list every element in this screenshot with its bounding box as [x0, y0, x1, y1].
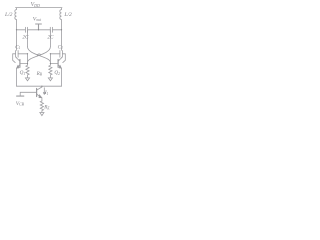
wire Q1 emitter down [16, 68, 18, 86]
svg-text:RB: RB [36, 71, 43, 77]
wire emitter bus [17, 85, 62, 87]
junction dot tail collector [41, 86, 42, 87]
wire Q1 base lead [20, 62, 28, 64]
junction dot left C1 lead [27, 53, 28, 54]
svg-text:VDD: VDD [31, 2, 40, 8]
wire Q3 base lead [20, 92, 36, 96]
wire 2C row center [28, 29, 51, 31]
inductor L/2 left [15, 8, 17, 50]
wire Q2 base lead [50, 62, 58, 64]
capacitor C1 left [16, 51, 19, 58]
junction dot left base lead [27, 63, 28, 64]
node Vb terminal center [36, 24, 42, 30]
wire C1 right outer lead [62, 54, 65, 63]
node VCB bias bar [17, 95, 24, 97]
svg-text:Vout: Vout [33, 16, 42, 22]
wire VDD top rail [16, 7, 63, 9]
resistor RE [40, 101, 43, 112]
wire crossover hop [37, 54, 40, 56]
svg-text:2C: 2C [47, 35, 54, 41]
wire Q3 emitter down [41, 98, 43, 101]
wire cross diagonal B with hop [28, 47, 51, 63]
junction dot right C1 lead [50, 53, 51, 54]
wire 2C row right segment [53, 29, 62, 31]
junction dot center terminal [38, 29, 39, 30]
svg-text:RE: RE [43, 105, 50, 111]
junction dot left 2C [16, 29, 17, 30]
resistor RB left [26, 65, 29, 78]
svg-text:C1: C1 [58, 44, 63, 50]
transistor Q2 [57, 60, 59, 68]
wire 2C row left segment [17, 29, 26, 31]
transistor Q1 [19, 60, 21, 68]
wire right X column upper [49, 30, 51, 47]
wire left X column upper [27, 30, 29, 47]
transistor Q3 tail [36, 89, 38, 97]
wire cross diagonal A [28, 47, 51, 63]
wire Q2 emitter down [61, 68, 63, 86]
svg-text:L/2: L/2 [63, 12, 72, 18]
wire C1 left outer lead [13, 54, 16, 63]
ground bottom [40, 113, 45, 116]
junction dot right base lead [50, 63, 51, 64]
resistor RB right [49, 65, 52, 78]
svg-text:VCB: VCB [16, 101, 25, 107]
junction dot right 2C [61, 29, 62, 30]
wire left X column lower [27, 54, 29, 65]
ground right RB [48, 78, 53, 81]
wire right X column lower [49, 54, 51, 65]
capacitor C1 right [60, 51, 63, 58]
ground left RB [25, 78, 30, 81]
wire C1 left inner lead [18, 53, 27, 55]
current arrow I1 [43, 88, 45, 95]
svg-text:L/2: L/2 [4, 12, 13, 18]
svg-text:Q1: Q1 [20, 70, 26, 76]
capacitor 2C left [25, 27, 27, 32]
svg-text:2C: 2C [22, 35, 29, 41]
capacitor 2C right [50, 27, 52, 32]
wire C1 right inner lead [50, 53, 60, 55]
wire tail collector [41, 85, 43, 88]
svg-text:C1: C1 [15, 44, 20, 50]
svg-text:Q2: Q2 [54, 70, 60, 76]
svg-text:I1: I1 [44, 90, 49, 96]
inductor L/2 right [60, 8, 62, 50]
